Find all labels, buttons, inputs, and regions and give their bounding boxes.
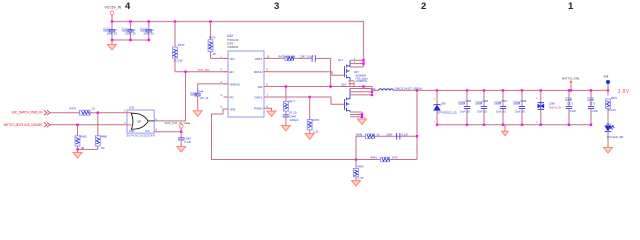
- pin VFB: [224, 108, 229, 110]
- svg-text:U32: U32: [227, 34, 233, 38]
- transistor Q18 (low side FET): [341, 83, 373, 120]
- svg-text:BATTCO_SELPLUGS_ONGATE: BATTCO_SELPLUGS_ONGATE: [4, 123, 43, 127]
- svg-text:3: 3: [274, 1, 279, 12]
- capacitor C943 (gate VCC decoupling): [178, 132, 192, 147]
- svg-text:GRM: GRM: [495, 102, 501, 105]
- svg-text:C389: C389: [549, 103, 556, 106]
- capacitor C944: [191, 90, 209, 111]
- power symbol VCC_INT_IN_Gate: [165, 121, 191, 132]
- wire DRVL to Q18 gate: [269, 97, 345, 104]
- wire gate output to EN: [154, 72, 185, 121]
- svg-text:SW: SW: [258, 85, 263, 89]
- svg-text:1R_00: 1R_00: [289, 111, 297, 115]
- svg-text:2: 2: [421, 1, 426, 12]
- svg-text:1.0pF: 1.0pF: [570, 110, 577, 113]
- resistor R480: [95, 113, 107, 150]
- svg-text:COMMON: COMMON: [227, 46, 238, 49]
- wire DRVH to Q17 gate: [269, 72, 345, 76]
- svg-text:Q18: Q18: [341, 83, 346, 87]
- svg-text:R643: R643: [371, 156, 378, 160]
- resistor R470: [208, 22, 228, 59]
- svg-text:C942: C942: [147, 28, 154, 32]
- ground (R478): [305, 134, 314, 140]
- svg-text:10: 10: [213, 52, 216, 56]
- capacitor C941: [122, 22, 136, 41]
- wire cap bank bottom: [112, 39, 149, 41]
- svg-text:GRM: GRM: [588, 98, 594, 101]
- node rail junctions: [416, 89, 609, 91]
- resistor R640: [356, 132, 380, 138]
- resistor R477 (snubber): [284, 87, 298, 115]
- pin SW: [264, 86, 269, 88]
- svg-text:10uF_16: 10uF_16: [107, 32, 118, 36]
- capacitor C948 (snubber): [283, 115, 299, 126]
- svg-text:C960: C960: [386, 132, 393, 136]
- svg-text:10uF_16: 10uF_16: [496, 111, 506, 114]
- LED D62: [605, 123, 624, 148]
- svg-text:GRM: GRM: [566, 98, 572, 101]
- resistor R475: [279, 55, 296, 61]
- ground (LED): [604, 148, 613, 154]
- wire main input bus: [112, 22, 364, 68]
- capacitor C366: [459, 90, 472, 124]
- pin DRVL: [264, 96, 269, 98]
- svg-text:VREG5: VREG5: [230, 82, 241, 86]
- wire input 2: [50, 124, 124, 126]
- wire FB line to R643: [356, 159, 417, 161]
- svg-text:1_5K: 1_5K: [358, 176, 364, 180]
- wire output gnd rail: [437, 124, 591, 126]
- svg-text:R481: R481: [80, 134, 87, 138]
- svg-text:COMMON: COMMON: [356, 80, 367, 83]
- svg-text:0.1uF: 0.1uF: [307, 55, 314, 59]
- pin VREG5: [224, 83, 229, 85]
- net input port SOC_SWITCH_PWR_EN: [12, 110, 51, 115]
- pin VBST: [264, 57, 269, 59]
- svg-text:10uF_16: 10uF_16: [143, 32, 154, 36]
- svg-text:VIN: VIN: [230, 57, 235, 61]
- svg-text:R480: R480: [101, 134, 108, 138]
- node EN junction: [184, 71, 186, 73]
- svg-text:VBST: VBST: [255, 57, 263, 61]
- svg-text:C364: C364: [482, 100, 489, 103]
- wire bootstrap to SW: [316, 58, 331, 86]
- svg-text:1uF_16: 1uF_16: [200, 96, 209, 100]
- svg-text:3V8: 3V8: [604, 75, 609, 79]
- wire gate VCC pin: [154, 131, 181, 133]
- svg-text:PGND: PGND: [254, 107, 264, 111]
- wire VFB feedback run: [212, 109, 357, 160]
- svg-text:SOC_SWITCH_PWR_EN: SOC_SWITCH_PWR_EN: [12, 111, 44, 115]
- svg-text:Q17: Q17: [338, 58, 343, 62]
- svg-text:10uF_16: 10uF_16: [515, 111, 525, 114]
- svg-text:VCC_INT_IN_Gate: VCC_INT_IN_Gate: [165, 121, 191, 125]
- svg-text:R473: R473: [178, 43, 185, 47]
- diode C389 TVS: [536, 90, 562, 124]
- svg-text:C940: C940: [110, 28, 117, 32]
- svg-text:1.0pF: 1.0pF: [592, 110, 599, 113]
- svg-text:GND: GND: [129, 130, 135, 133]
- svg-text:VCC/LED_IND: VCC/LED_IND: [607, 136, 624, 139]
- svg-text:C944: C944: [197, 90, 204, 94]
- svg-text:C947: C947: [300, 55, 307, 59]
- svg-text:R475: R475: [279, 55, 286, 59]
- wire output rail: [394, 89, 609, 91]
- svg-text:R470: R470: [209, 36, 216, 40]
- svg-text:EN: EN: [230, 70, 234, 74]
- power symbol VCC5V_IN: [105, 6, 122, 22]
- ground (Q18 source): [358, 119, 367, 125]
- svg-text:R641: R641: [358, 165, 365, 169]
- svg-text:R479: R479: [70, 106, 77, 110]
- svg-text:1_00: 1_00: [313, 130, 319, 134]
- power symbol 3V8: [604, 75, 611, 96]
- resistor R643: [371, 156, 398, 162]
- svg-text:C941: C941: [129, 28, 136, 32]
- resistor R478 (DRVL pulldown): [307, 97, 319, 134]
- svg-text:VCC5V_IN: VCC5V_IN: [105, 6, 122, 10]
- inductor L24: [366, 87, 422, 92]
- capacitor C947 (bootstrap): [300, 55, 316, 62]
- svg-text:C368: C368: [520, 100, 527, 103]
- svg-text:R477: R477: [289, 100, 296, 104]
- ground (R641): [352, 181, 361, 187]
- svg-text:STPS0520Z_L35: STPS0520Z_L35: [437, 111, 457, 114]
- svg-text:U33: U33: [129, 105, 135, 109]
- svg-text:3.8V: 3.8V: [618, 89, 630, 95]
- node input1 junction: [97, 112, 99, 114]
- capacitor C364: [476, 90, 489, 124]
- svg-text:10uF_16: 10uF_16: [125, 32, 136, 36]
- svg-text:4: 4: [125, 1, 131, 12]
- op-amp U32 buck controller IC: [221, 34, 270, 117]
- resistor R479: [70, 106, 96, 115]
- svg-text:DRVL: DRVL: [255, 95, 263, 99]
- resistor R476: [606, 96, 618, 126]
- pin DRVH: [264, 71, 269, 73]
- svg-text:C366: C366: [465, 100, 472, 103]
- svg-text:0.1uF: 0.1uF: [402, 132, 409, 136]
- transistor Q17 (high side FET): [338, 58, 368, 87]
- svg-text:147K: 147K: [392, 156, 398, 160]
- capacitor C942: [140, 22, 154, 41]
- svg-text:D60: D60: [441, 102, 446, 106]
- svg-text:10: 10: [92, 106, 95, 110]
- resistor R481: [75, 125, 87, 150]
- wire pulldown bottoms: [78, 148, 98, 150]
- wire VREG5: [198, 84, 228, 94]
- ground (pulldowns): [73, 149, 82, 158]
- ground (output bank): [502, 125, 509, 136]
- ground (gate VCC cap): [177, 147, 186, 153]
- wire SW line: [269, 86, 364, 88]
- capacitor C368: [514, 90, 527, 124]
- svg-text:5V0_EN: 5V0_EN: [198, 68, 210, 72]
- capacitor C960: [386, 132, 409, 139]
- ground (PGND): [267, 111, 276, 117]
- svg-text:R476: R476: [611, 96, 618, 100]
- resistor R641 (divider low): [354, 160, 365, 181]
- svg-text:L24: L24: [371, 87, 376, 91]
- wire FB right corner to rail: [416, 90, 418, 159]
- junction dots on bus: [111, 20, 212, 22]
- wire EN line: [175, 71, 228, 73]
- pin VIN: [224, 57, 229, 59]
- svg-text:GRM: GRM: [514, 102, 520, 105]
- svg-text:GRM: GRM: [476, 102, 482, 105]
- svg-text:GRM: GRM: [459, 102, 465, 105]
- svg-text:1: 1: [568, 1, 574, 12]
- capacitor C367: [495, 90, 508, 124]
- wire PGND to ground: [269, 108, 272, 111]
- ground (C944): [193, 111, 202, 117]
- svg-text:0.1uF: 0.1uF: [185, 140, 192, 144]
- svg-text:VFB: VFB: [230, 107, 236, 111]
- svg-text:2200pF: 2200pF: [290, 118, 299, 122]
- diode D60 schottky: [434, 90, 458, 124]
- op-amp U33 OR gate: [124, 105, 158, 137]
- svg-text:C371: C371: [567, 103, 574, 106]
- svg-text:C367: C367: [501, 100, 508, 103]
- wire feed-forward line: [356, 136, 417, 159]
- ground (snubber): [281, 126, 290, 132]
- wire VBST row: [269, 57, 286, 59]
- svg-text:VCC: VCC: [145, 130, 150, 133]
- svg-text:OR: OR: [137, 120, 141, 124]
- svg-text:SN74LVC1G32DCKR: SN74LVC1G32DCKR: [127, 135, 155, 138]
- pin EN: [224, 71, 229, 73]
- svg-text:10uF_16: 10uF_16: [460, 111, 470, 114]
- pin PGND: [264, 107, 269, 109]
- pin PG: [224, 96, 229, 98]
- svg-text:R640: R640: [356, 132, 363, 136]
- svg-text:DRVH: DRVH: [254, 70, 262, 74]
- node input2 junction: [76, 124, 78, 126]
- wire input 1: [50, 112, 80, 114]
- svg-text:PG: PG: [230, 95, 235, 99]
- svg-text:R478: R478: [313, 118, 320, 122]
- capacitor C371: [566, 90, 577, 124]
- net input port BATTCO_SELPLUGS_ONGATE: [4, 122, 51, 127]
- svg-text:C372: C372: [589, 103, 596, 106]
- ground (cap bank): [108, 40, 117, 50]
- capacitor C940: [104, 22, 118, 41]
- resistor R473: [173, 22, 185, 72]
- svg-text:SMAJ5_0V: SMAJ5_0V: [549, 107, 562, 110]
- capacitor C372: [588, 90, 599, 124]
- svg-text:BATT3V_TAB: BATT3V_TAB: [562, 77, 579, 81]
- power symbol BATT3V_TAB: [562, 77, 579, 91]
- svg-text:10uF_16: 10uF_16: [477, 111, 487, 114]
